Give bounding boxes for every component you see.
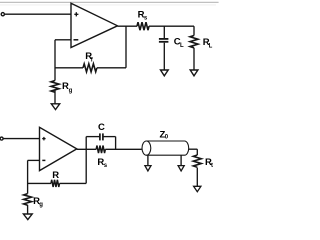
svg-text:g: g — [69, 88, 73, 94]
svg-text:t: t — [211, 163, 213, 169]
svg-text:R: R — [52, 170, 59, 181]
svg-text:g: g — [39, 202, 43, 208]
svg-text:C: C — [98, 122, 105, 133]
svg-text:L: L — [180, 43, 184, 49]
svg-text:L: L — [209, 43, 213, 49]
